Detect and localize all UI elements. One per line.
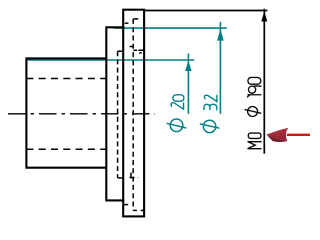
label digit 1 of 190: [248, 95, 261, 97]
diameter symbol of 190: [248, 107, 258, 117]
hidden line shaft bore top: [26, 78, 106, 80]
wire teal extension line for diameter 20: [26, 59, 194, 61]
hidden line flange top stub: [118, 50, 124, 52]
dimension line diameter 190: [263, 9, 265, 154]
arrowhead diameter 32: [217, 29, 224, 41]
hidden line dashes y50: [133, 49, 144, 51]
hidden line dash lower left: [123, 204, 128, 206]
label digit 2 of 20: [171, 103, 184, 110]
hidden line small dash bottom right: [141, 209, 144, 211]
hidden line flange bottom stub: [118, 177, 124, 179]
label digit 2 of 32: [204, 95, 217, 102]
shaft body outline: [26, 58, 106, 167]
hidden line small dash upper left: [125, 22, 129, 24]
hidden line plate vertical: [132, 19, 134, 211]
diameter symbol of 32: [203, 120, 215, 132]
hidden line plate hook top: [133, 18, 138, 20]
hidden line dash y177: [130, 177, 139, 179]
hidden line small dash y46: [130, 46, 133, 48]
hidden line plate hook bottom: [133, 209, 137, 211]
arrowhead diameter 20: [185, 60, 191, 71]
plate outline: [123, 10, 144, 217]
label digit 0 of 190: [248, 77, 261, 84]
arrowhead diameter 190: [261, 11, 267, 21]
hidden line flange vertical: [117, 51, 119, 178]
diameter symbol of 20: [170, 119, 183, 132]
label digit 9 of 190: [249, 86, 256, 93]
dimension line diameter 32: [219, 22, 221, 114]
node centerline: [8, 113, 155, 115]
label digit 0 of 20: [173, 95, 184, 101]
hidden line shaft bore bottom: [26, 148, 106, 150]
label letter D of MD: [248, 133, 261, 138]
wire black extension line for diameter 190: [144, 10, 267, 12]
dimension line diameter 20: [187, 54, 189, 114]
label digit 3 of 32: [204, 104, 217, 110]
hidden line small vert stub y172: [130, 173, 132, 178]
hidden line small dash y53: [139, 52, 142, 54]
flange outline: [106, 27, 124, 200]
wire teal extension line for diameter 32: [114, 27, 227, 29]
label letter M of MD: [248, 142, 261, 149]
